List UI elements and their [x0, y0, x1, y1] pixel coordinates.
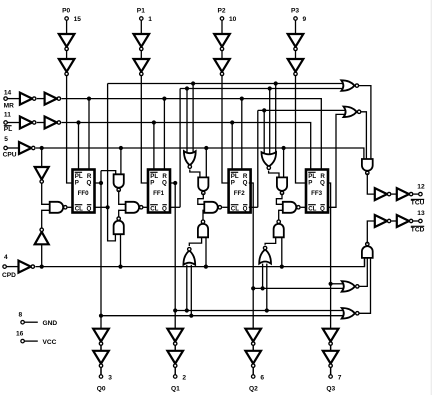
wire PL input FF0 — [78, 123, 80, 170]
inverter Q3 first — [323, 329, 339, 346]
svg-text:10: 10 — [229, 16, 237, 23]
nand TCD — [362, 242, 373, 258]
wire bus B Q1bar net — [170, 89, 343, 208]
svg-text:Q1: Q1 — [171, 386, 180, 393]
junction CPU row — [40, 146, 44, 150]
inverter P3 second — [288, 59, 304, 76]
wire Q1 column — [170, 183, 175, 375]
junction L1 FF3 — [265, 308, 269, 312]
inverter CPU — [19, 142, 35, 154]
junction bus B to FF2 gate — [185, 86, 189, 90]
wire NAND FF0 output to CL — [68, 206, 73, 208]
junction CPU row — [119, 146, 123, 150]
pin CPD input connector pin 4 — [2, 254, 19, 279]
wire FF2 nor to enable nand — [190, 170, 200, 178]
wire CPU tap to FF1 enable — [120, 148, 122, 174]
svg-text:GND: GND — [43, 320, 58, 327]
nor FF3 steering up — [259, 246, 271, 263]
wire Q3 between inverters — [330, 345, 332, 350]
wire FF2 nor-up to up-nand — [189, 237, 201, 246]
svg-text:16: 16 — [16, 331, 24, 338]
svg-text:13: 13 — [417, 210, 425, 217]
svg-text:TCU: TCU — [411, 199, 425, 206]
junction MR-R2 — [240, 97, 244, 101]
nand U1 FF0 clock — [50, 202, 67, 213]
wire P0 between inverters — [66, 51, 68, 59]
nand FF3 enable up — [274, 220, 284, 237]
pin VCC pin 16 — [16, 331, 57, 347]
wire bus B to FF3 nor input2 — [269, 89, 271, 156]
inverter P2 first — [214, 34, 230, 51]
inverter TCU first — [375, 188, 391, 200]
junction CPU row — [204, 146, 208, 150]
wire up-inverter to NAND FF0 input2 — [42, 210, 50, 230]
pin PL input connector pin 11 — [4, 112, 20, 134]
junction Q0 output — [99, 181, 103, 185]
svg-text:CL: CL — [150, 206, 158, 213]
junction L2 FF2 — [189, 314, 193, 318]
svg-text:Q: Q — [86, 179, 91, 186]
inverter TCD second — [397, 215, 413, 227]
junction bus C to FF3 gate — [262, 108, 266, 112]
junction CPD row — [204, 265, 208, 269]
junction CPD row — [280, 265, 284, 269]
inverter MR second — [45, 93, 61, 105]
wire CPD tap to FF3 up-nand — [281, 237, 283, 266]
wire P3 column to FF3 P input — [296, 76, 307, 183]
svg-text:Q0: Q0 — [97, 386, 106, 393]
wire FF3 nor-up to up-nand — [265, 237, 276, 245]
wire Q3 column — [327, 183, 331, 375]
inverter P1 first — [134, 34, 150, 51]
wire PL input FF2 — [231, 123, 233, 170]
svg-text:Q: Q — [243, 179, 248, 186]
nor FF2 steering up — [183, 248, 195, 265]
junction MR-R1 — [162, 97, 166, 101]
nand FF3 enable down — [277, 177, 287, 194]
wire PL row to PL inputs — [62, 123, 311, 170]
wire gate3 input from Q2 — [253, 287, 343, 289]
svg-text:P: P — [231, 179, 235, 186]
wire CPD row — [35, 259, 364, 267]
wire P3 between inverters — [295, 51, 297, 59]
svg-text:14: 14 — [4, 89, 12, 96]
wire L1 from Q1 to gate4 — [175, 310, 343, 312]
svg-text:P: P — [150, 179, 154, 186]
junction Q0bar — [106, 205, 110, 209]
inverter Q1 second — [167, 351, 183, 368]
wire bus B to FF2 nor input1 — [186, 89, 188, 155]
junction PL-FF1 — [152, 120, 156, 124]
wire Q1 between inverters — [174, 345, 176, 350]
svg-text:FF2: FF2 — [234, 190, 246, 197]
wire FF3 nor to enable nand — [269, 171, 279, 178]
flip-flop FF1 — [148, 170, 170, 213]
wire TCU nand to buffers — [367, 173, 375, 194]
wire PL between inverters — [37, 122, 45, 124]
flip-flop FF0 — [73, 170, 95, 213]
svg-text:9: 9 — [303, 16, 307, 23]
svg-text:CL: CL — [231, 206, 239, 213]
pin P3 input connector pin 9 — [291, 8, 307, 35]
wire R input FF1 — [163, 99, 165, 170]
wire FF3 nor-up input1 to G3B line — [262, 264, 264, 289]
junction L1 FF2 — [185, 308, 189, 312]
nand FF2 enable up — [198, 220, 208, 237]
svg-text:4: 4 — [4, 254, 8, 261]
junction Q3 to G3A line — [329, 282, 333, 286]
svg-text:TCD: TCD — [411, 226, 425, 233]
wire Q2 column — [249, 183, 253, 375]
svg-text:FF3: FF3 — [311, 190, 323, 197]
wire bus A to FF2 nor input2 — [192, 84, 194, 155]
nand FF2 enable down — [198, 177, 208, 194]
svg-text:P3: P3 — [291, 8, 299, 15]
wire CPU tap to FF3 enable — [283, 148, 285, 177]
svg-text:12: 12 — [417, 184, 425, 191]
inverter Q2 first — [245, 329, 261, 346]
wire CPU tap to FF2 enable — [205, 148, 207, 177]
junction CPD row — [40, 265, 44, 269]
junction bus A to FF2 gate — [191, 81, 195, 85]
inverter Q3 second — [323, 351, 339, 368]
svg-text:Q3: Q3 — [326, 386, 335, 393]
junction PL-FF0 — [76, 120, 80, 124]
wire FF2 nor-up input1 to L1 — [186, 265, 188, 311]
nor gate3 TCD — [342, 281, 359, 292]
svg-text:Q: Q — [320, 206, 325, 213]
wire P2 column to FF2 P input — [222, 76, 229, 183]
inverter P3 first — [288, 34, 304, 51]
wire bus A Q0bar net — [95, 84, 344, 241]
wire MR between inverters — [37, 98, 45, 100]
junction Q1 to L1 — [173, 308, 177, 312]
wire Q3bar to nor gate2 — [327, 114, 345, 207]
inverter FF0 clock down — [35, 167, 49, 183]
wire Q2 between inverters — [252, 345, 254, 350]
wire FF1 up-nand to clock NAND — [119, 210, 126, 219]
pin CPU input connector pin 5 — [3, 136, 19, 158]
inverter P1 second — [134, 59, 150, 76]
inverter CPD — [19, 261, 35, 273]
svg-text:Q: Q — [243, 206, 248, 213]
svg-text:Q: Q — [86, 206, 91, 213]
wire CPU row — [36, 148, 364, 159]
pin Q2 output connector pin 6 — [249, 368, 264, 393]
wire P1 between inverters — [140, 51, 142, 59]
junction bus B to FF3 gate — [268, 86, 272, 90]
wire FF2 nor-up input2 to L2 — [190, 265, 192, 316]
junction Q1 output — [173, 181, 177, 185]
nand TCU — [362, 159, 373, 175]
wire TCD nand input gate4 — [359, 258, 370, 313]
svg-text:P: P — [308, 179, 312, 186]
wire L2 from Q0 to gate4 — [101, 315, 343, 317]
inverter MR first — [20, 93, 36, 105]
pin P1 input connector pin 1 — [137, 8, 153, 35]
svg-text:5: 5 — [4, 136, 8, 143]
inverter Q0 first — [93, 329, 109, 346]
inverter Q0 second — [93, 351, 109, 368]
nor gate2 TCU — [344, 107, 361, 118]
svg-text:CL: CL — [75, 206, 83, 213]
wire R input FF2 — [241, 99, 243, 170]
junction PL-FF2 — [230, 120, 234, 124]
wire inverter to NAND FF0 input1 — [42, 183, 50, 204]
svg-text:P: P — [75, 179, 79, 186]
wire gate1 output — [359, 86, 371, 159]
wire PL input FF1 — [153, 123, 155, 170]
svg-text:P1: P1 — [137, 8, 145, 15]
inverter PL first — [20, 117, 36, 129]
svg-text:8: 8 — [19, 312, 23, 319]
svg-text:Q2: Q2 — [249, 386, 258, 393]
pin MR input connector pin 14 — [4, 89, 20, 109]
svg-text:Q: Q — [162, 206, 167, 213]
nand U4 FF3 clock — [283, 202, 300, 213]
wire CPU tap to inverter FF0 — [41, 148, 43, 167]
wire FF3 enable to clock NAND — [276, 193, 282, 204]
wire FF2 up-nand to clock NAND — [203, 210, 204, 221]
inverter P0 second — [59, 59, 75, 76]
wire TCD nand input CPD — [364, 258, 366, 267]
flip-flop FF3 — [306, 170, 328, 213]
nand U2 FF1 clock — [126, 202, 143, 213]
svg-text:2: 2 — [182, 375, 186, 382]
svg-text:PL: PL — [4, 126, 12, 133]
wire NAND FF1 output to CL — [144, 206, 149, 208]
pin Q3 output connector pin 7 — [326, 368, 341, 393]
svg-text:CPD: CPD — [2, 272, 16, 279]
wire TCU between inverters — [391, 193, 396, 195]
wire P2 between inverters — [221, 51, 223, 59]
nand FF1 enable up — [114, 217, 124, 234]
inverter PL second — [45, 117, 61, 129]
wire Q0 between inverters — [100, 345, 102, 350]
junction CPD row — [118, 265, 122, 269]
junction G3B FF3 — [261, 286, 265, 290]
pin Q0 output connector pin 3 — [97, 368, 112, 393]
junction bus A to FF3 gate — [274, 81, 278, 85]
junction MR-R0 — [87, 97, 91, 101]
wire bus C to FF3 nor input1 — [263, 110, 265, 155]
wire TCD between inverters — [391, 220, 396, 222]
nand U3 FF2 clock — [204, 202, 221, 213]
pin P0 input connector pin 15 — [62, 8, 81, 35]
flip-flop FF2 — [229, 170, 251, 213]
wire gate2 output — [361, 112, 366, 159]
svg-text:CPU: CPU — [3, 152, 17, 159]
pin GND pin 8 — [19, 312, 58, 328]
wire bus C Q2bar net — [249, 110, 345, 207]
wire MR row to R inputs — [62, 99, 322, 170]
pin TCD output pin 13 — [411, 210, 425, 233]
nor FF2 steering down — [184, 151, 196, 168]
svg-text:Q: Q — [320, 179, 325, 186]
inverter Q1 first — [167, 329, 183, 346]
svg-text:FF1: FF1 — [153, 190, 165, 197]
nor gate4 TCD — [342, 308, 359, 319]
wire NAND FF2 output to CL — [222, 206, 228, 208]
svg-text:CL: CL — [308, 206, 316, 213]
nor FF3 steering down — [262, 152, 277, 169]
wire CPD tap to up-inverter FF0 — [41, 244, 43, 266]
svg-text:VCC: VCC — [43, 339, 57, 346]
junction Q2 to G3B line — [251, 286, 255, 290]
inverter FF0 clock up — [35, 228, 49, 244]
svg-text:7: 7 — [338, 375, 342, 382]
nor gate1 TCU — [341, 80, 358, 91]
svg-text:6: 6 — [260, 375, 264, 382]
svg-text:FF0: FF0 — [78, 190, 90, 197]
junction Q0 to L2 — [99, 314, 103, 318]
svg-text:P0: P0 — [62, 8, 70, 15]
wire P1 column to FF1 P input — [141, 76, 148, 183]
inverter P0 first — [59, 34, 75, 51]
wire bus A to FF3 nor input3 — [275, 84, 277, 156]
nand FF1 enable down — [114, 174, 124, 191]
wire CPD tap to FF2 up-nand — [205, 237, 207, 266]
wire CPD tap to FF1 up-nand — [120, 234, 122, 266]
svg-text:P2: P2 — [218, 8, 226, 15]
wire TCD nand to buffers — [367, 221, 375, 244]
pin TCU output pin 12 — [411, 184, 425, 207]
wire FF2 enable to clock NAND — [198, 193, 205, 204]
pin Q1 output connector pin 2 — [171, 368, 186, 393]
svg-text:11: 11 — [4, 112, 11, 119]
wire FF3 nor-up input2 to L1 — [266, 264, 268, 311]
wire TCD nand input gate3 — [359, 258, 367, 287]
wire NAND FF3 output to CL — [301, 206, 306, 208]
wire R input FF0 — [88, 99, 90, 170]
svg-text:Q: Q — [162, 179, 167, 186]
inverter TCD first — [375, 215, 391, 227]
wire P0 column to FF0 P input — [67, 76, 73, 183]
wire FF3 up-nand to clock NAND — [279, 210, 283, 221]
wire gate3 input from Q3 — [331, 283, 344, 285]
wire Q0 column — [95, 171, 116, 375]
inverter TCU second — [397, 188, 413, 200]
wire FF1 enable to clock NAND — [119, 190, 126, 204]
svg-text:3: 3 — [108, 375, 112, 382]
pin P2 input connector pin 10 — [218, 8, 237, 35]
junction CPU row — [282, 146, 286, 150]
inverter Q2 second — [245, 351, 261, 368]
svg-text:1: 1 — [148, 16, 152, 23]
svg-text:15: 15 — [74, 16, 82, 23]
inverter P2 second — [214, 59, 230, 76]
svg-text:MR: MR — [4, 102, 14, 109]
